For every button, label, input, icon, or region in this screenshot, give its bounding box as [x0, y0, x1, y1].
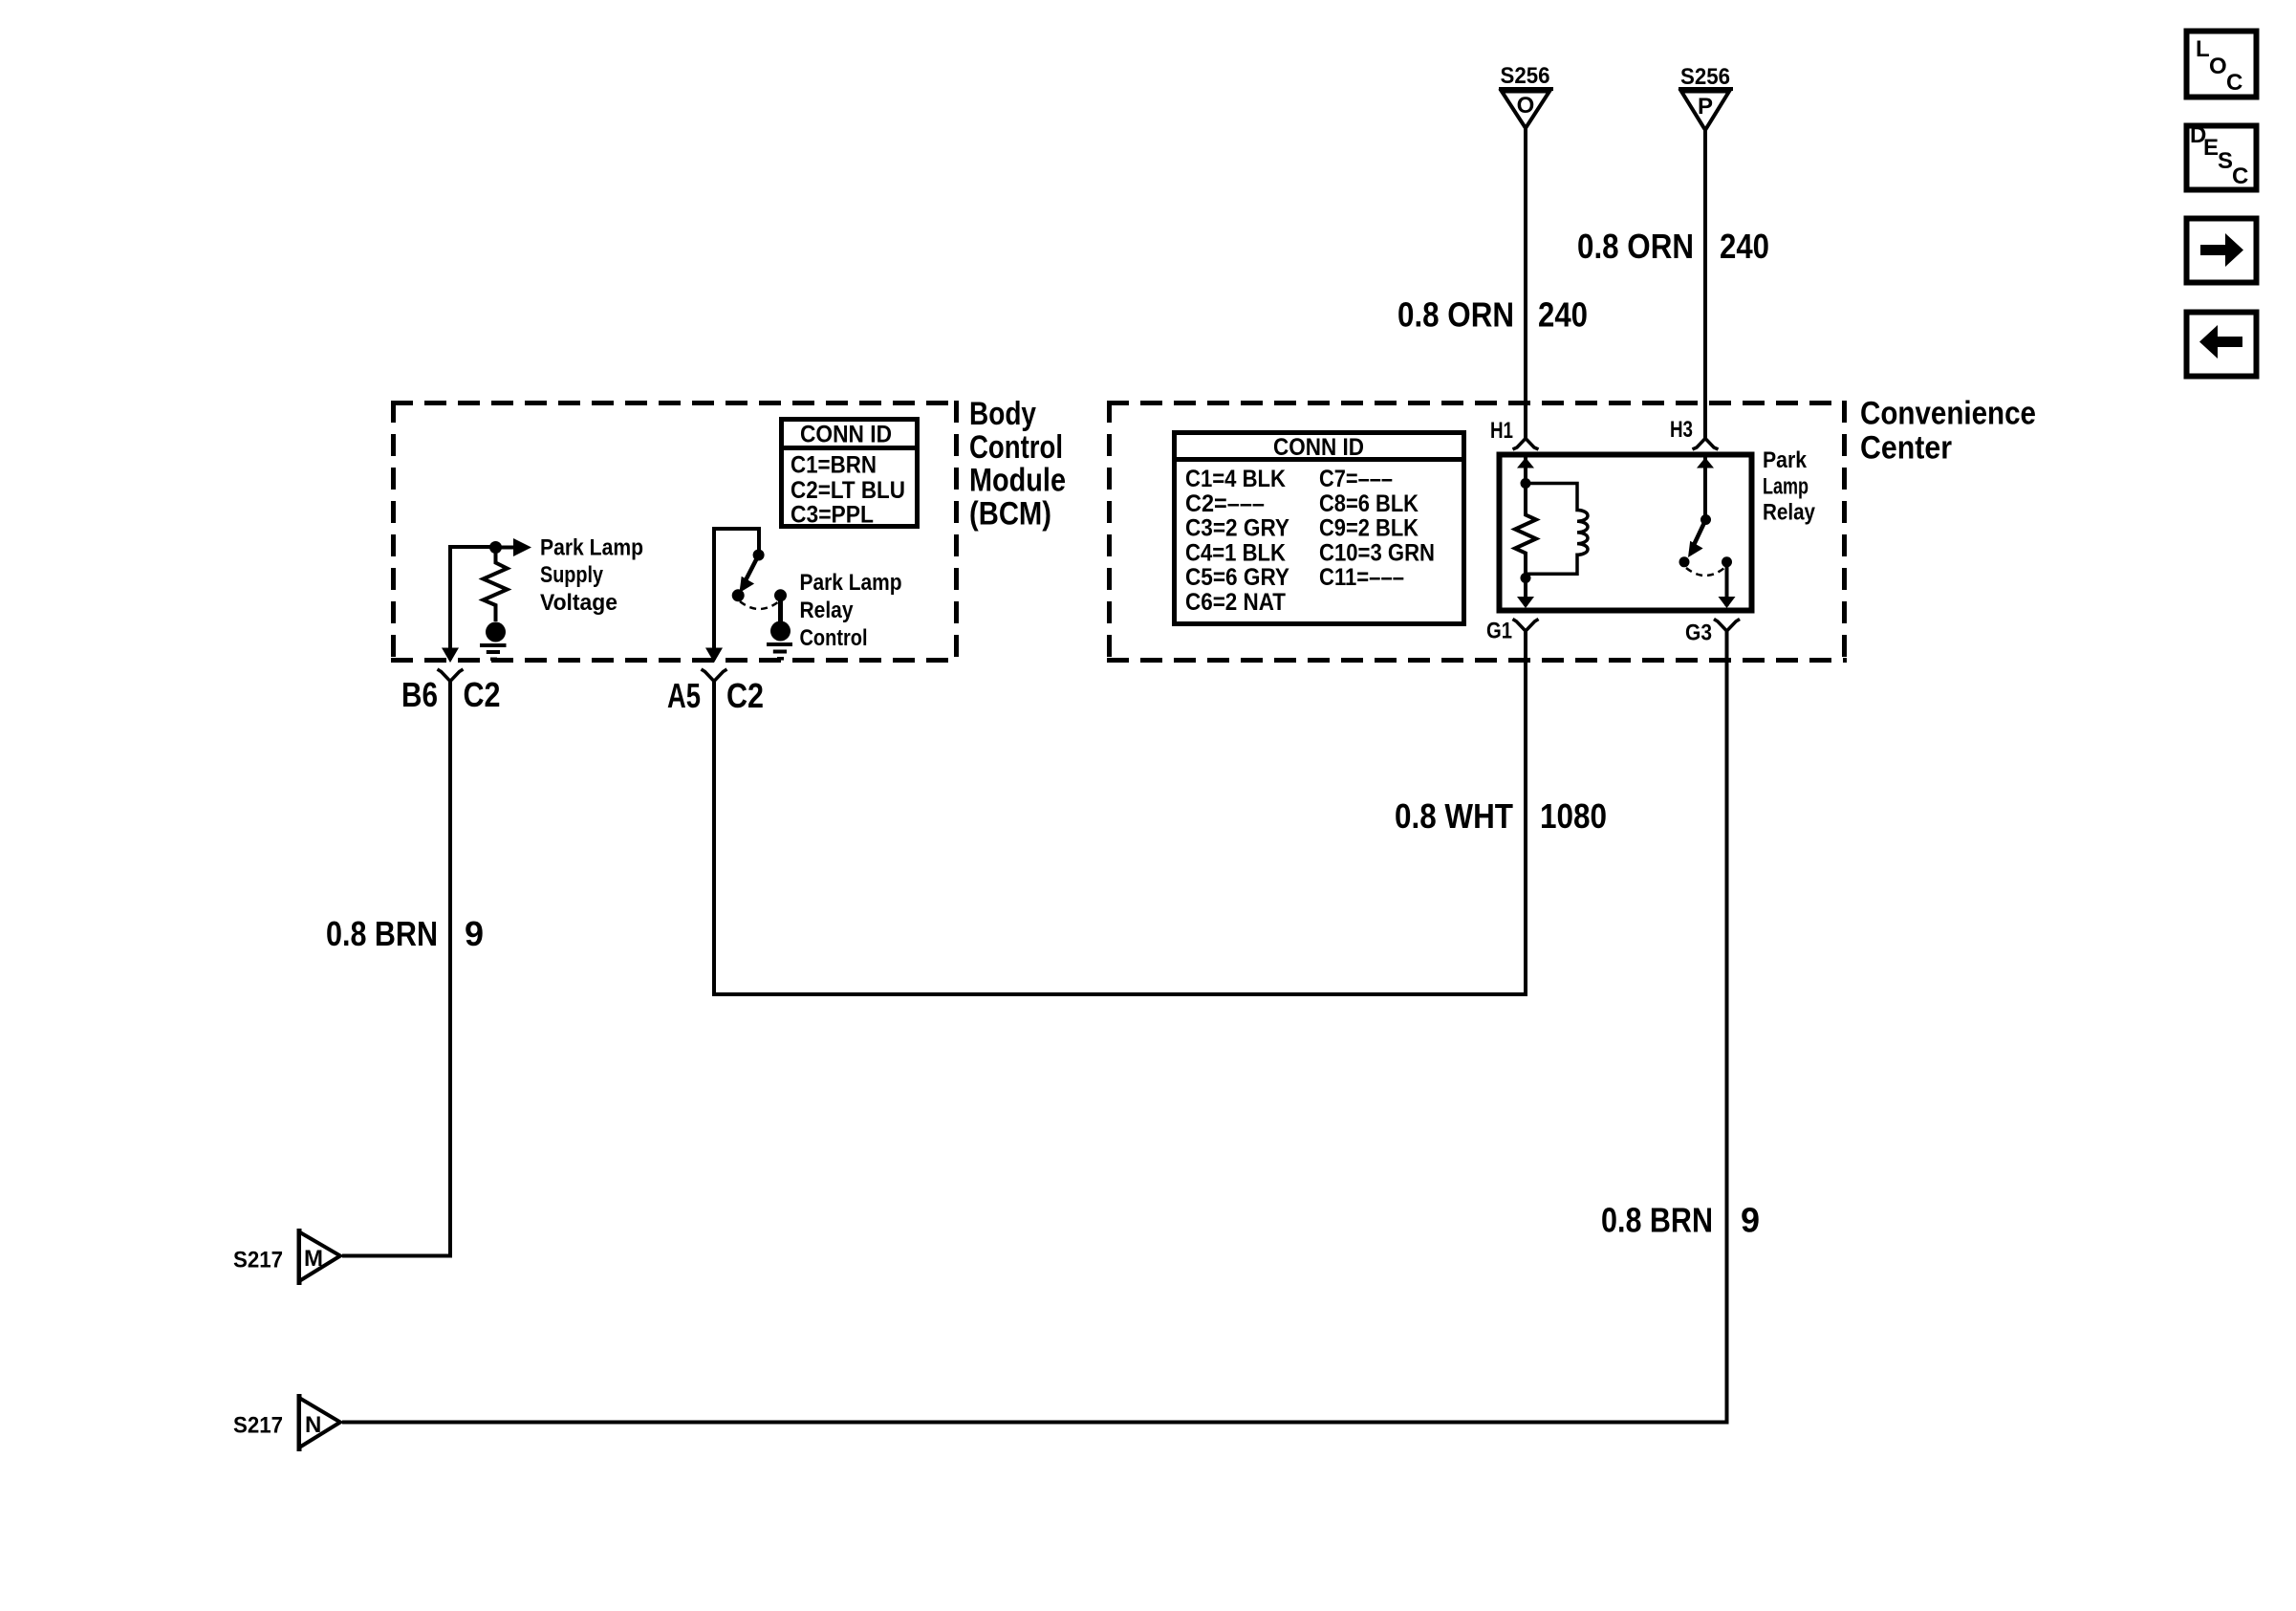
relay dashed throw arc — [1686, 568, 1724, 576]
arrow to Park Lamp Supply Voltage — [496, 538, 532, 556]
svg-text:C: C — [2232, 163, 2248, 189]
relay coil branch (left) — [1517, 457, 1534, 483]
wire from S256 O to H1 — [1524, 128, 1527, 439]
label Park Lamp Relay Control — [800, 570, 902, 651]
svg-text:S217: S217 — [233, 1248, 283, 1274]
stem to ground — [778, 596, 783, 623]
svg-text:0.8 ORN: 0.8 ORN — [1397, 295, 1514, 335]
switch contact node left — [732, 589, 745, 601]
svg-text:9: 9 — [1741, 1201, 1760, 1240]
svg-text:S256: S256 — [1680, 64, 1730, 90]
svg-text:C1=BRN: C1=BRN — [791, 451, 877, 478]
pin G3 connector fork — [1685, 620, 1740, 646]
svg-text:Supply: Supply — [540, 562, 604, 588]
svg-text:S: S — [2218, 148, 2233, 174]
svg-text:C9=2 BLK: C9=2 BLK — [1319, 515, 1419, 542]
icon box arrow left — [2187, 313, 2257, 377]
svg-text:CONN ID: CONN ID — [1273, 434, 1364, 461]
coil branch exit arrow to G1 — [1517, 578, 1534, 609]
splice S217 N — [233, 1394, 340, 1451]
svg-text:CONN ID: CONN ID — [800, 421, 892, 447]
svg-text:0.8 BRN: 0.8 BRN — [1601, 1201, 1713, 1240]
relay resistor — [1515, 484, 1536, 578]
relay switch arm — [1688, 520, 1706, 558]
BCM title Body Control Module (BCM) — [969, 396, 1066, 532]
svg-text:Park Lamp: Park Lamp — [540, 535, 643, 561]
label Park Lamp Supply Voltage — [540, 535, 643, 616]
svg-text:0.8 WHT: 0.8 WHT — [1395, 796, 1513, 836]
svg-text:S256: S256 — [1501, 63, 1550, 89]
Convenience Center dashed box — [1107, 401, 1847, 663]
ground (BCM supply) — [480, 622, 507, 660]
svg-text:Control: Control — [969, 429, 1063, 466]
wire label 0.8 BRN 9 (right) — [1601, 1201, 1760, 1240]
CC title Convenience Center — [1860, 396, 2036, 467]
switch arm (BCM) — [740, 555, 759, 594]
svg-text:0.8 BRN: 0.8 BRN — [326, 914, 438, 953]
pin B6 connector fork — [438, 669, 464, 682]
icon box arrow right — [2187, 219, 2257, 283]
relay switch branch (right) — [1697, 457, 1714, 519]
svg-text:P: P — [1698, 94, 1713, 120]
svg-text:C: C — [2226, 70, 2242, 96]
wire label 0.8 BRN 9 (left) — [326, 914, 484, 953]
BCM relay control wire — [705, 529, 759, 663]
svg-text:G3: G3 — [1685, 620, 1712, 646]
svg-text:C7=–––: C7=––– — [1319, 466, 1393, 492]
svg-text:H3: H3 — [1670, 417, 1693, 443]
svg-text:(BCM): (BCM) — [969, 495, 1051, 532]
pin H3 connector fork — [1670, 417, 1719, 449]
relay coil (parallel) — [1526, 484, 1588, 575]
ground (relay control) — [767, 621, 792, 659]
svg-text:Center: Center — [1860, 429, 1952, 466]
svg-text:G1: G1 — [1486, 619, 1512, 644]
svg-text:240: 240 — [1720, 227, 1769, 266]
svg-text:C2=–––: C2=––– — [1185, 490, 1265, 517]
coil bottom node — [1521, 573, 1531, 583]
svg-text:C10=3 GRN: C10=3 GRN — [1319, 539, 1435, 566]
pin label A5 | C2 — [667, 676, 764, 715]
switch contact node right — [774, 589, 787, 601]
wire A5 to G1 — [714, 631, 1526, 994]
svg-text:Lamp: Lamp — [1763, 473, 1809, 499]
svg-text:C8=6 BLK: C8=6 BLK — [1319, 490, 1419, 517]
BCM park lamp supply wire — [442, 547, 495, 663]
splice S217 M — [233, 1229, 340, 1285]
svg-text:C1=4 BLK: C1=4 BLK — [1185, 466, 1286, 492]
svg-text:C5=6 GRY: C5=6 GRY — [1185, 564, 1289, 591]
icon box LOC — [2187, 32, 2257, 98]
svg-text:Relay: Relay — [800, 598, 855, 623]
svg-text:H1: H1 — [1490, 418, 1513, 444]
CC CONN ID table — [1172, 433, 1466, 624]
svg-text:C2: C2 — [464, 675, 501, 714]
svg-text:C6=2 NAT: C6=2 NAT — [1185, 589, 1286, 616]
svg-text:9: 9 — [465, 914, 484, 953]
wire from S256 P to H3 — [1703, 130, 1707, 439]
svg-text:Module: Module — [969, 463, 1066, 499]
svg-text:C11=–––: C11=––– — [1319, 564, 1404, 591]
pin G1 connector fork — [1486, 619, 1539, 644]
coil top node — [1521, 478, 1531, 489]
svg-text:B6: B6 — [401, 675, 438, 714]
svg-text:M: M — [304, 1246, 323, 1272]
junction node (supply) — [489, 541, 502, 554]
wire B6 to splice M — [342, 682, 450, 1256]
svg-text:Voltage: Voltage — [540, 590, 617, 616]
svg-text:1080: 1080 — [1540, 796, 1607, 836]
svg-text:Body: Body — [969, 396, 1036, 432]
svg-text:N: N — [305, 1412, 321, 1438]
splice S256 O — [1499, 63, 1553, 128]
switch pivot node — [753, 550, 765, 561]
svg-text:O: O — [2209, 54, 2227, 79]
switch exit arrow to G3 — [1719, 562, 1736, 608]
wire label 0.8 ORN 240 (P wire) — [1577, 227, 1769, 266]
wire label 0.8 WHT 1080 — [1395, 796, 1607, 836]
icon box DESC — [2187, 122, 2257, 190]
svg-text:Park: Park — [1763, 447, 1808, 473]
svg-text:O: O — [1517, 93, 1535, 119]
svg-text:0.8 ORN: 0.8 ORN — [1577, 227, 1694, 266]
svg-text:Control: Control — [800, 625, 868, 651]
wire label 0.8 ORN 240 (O wire) — [1397, 295, 1588, 335]
resistor (BCM supply) — [484, 548, 508, 622]
pin A5 connector fork — [702, 669, 727, 682]
wire G3 to splice N — [342, 631, 1727, 1423]
svg-text:C3=2 GRY: C3=2 GRY — [1185, 515, 1289, 542]
splice S256 P — [1679, 64, 1733, 130]
svg-text:Convenience: Convenience — [1860, 396, 2036, 432]
svg-text:C2=LT BLU: C2=LT BLU — [791, 477, 905, 504]
svg-text:C2: C2 — [726, 676, 764, 715]
svg-text:A5: A5 — [667, 676, 701, 715]
svg-text:C4=1 BLK: C4=1 BLK — [1185, 539, 1286, 566]
BCM dashed box — [391, 401, 959, 663]
Park Lamp Relay box — [1500, 455, 1752, 611]
relay contact node right — [1722, 556, 1732, 567]
svg-text:Relay: Relay — [1763, 500, 1816, 526]
svg-text:240: 240 — [1538, 295, 1588, 335]
svg-text:E: E — [2203, 135, 2219, 161]
svg-text:C3=PPL: C3=PPL — [791, 502, 874, 529]
relay switch pivot node — [1700, 514, 1711, 525]
pin H1 connector fork — [1490, 418, 1539, 449]
svg-text:L: L — [2196, 36, 2210, 62]
relay label — [1763, 447, 1816, 526]
svg-text:S217: S217 — [233, 1413, 283, 1439]
relay contact node left — [1679, 556, 1690, 567]
svg-text:Park Lamp: Park Lamp — [800, 570, 902, 596]
dashed throw arc — [740, 601, 779, 609]
pin label B6 | C2 — [401, 675, 501, 714]
BCM CONN ID table — [779, 420, 920, 529]
